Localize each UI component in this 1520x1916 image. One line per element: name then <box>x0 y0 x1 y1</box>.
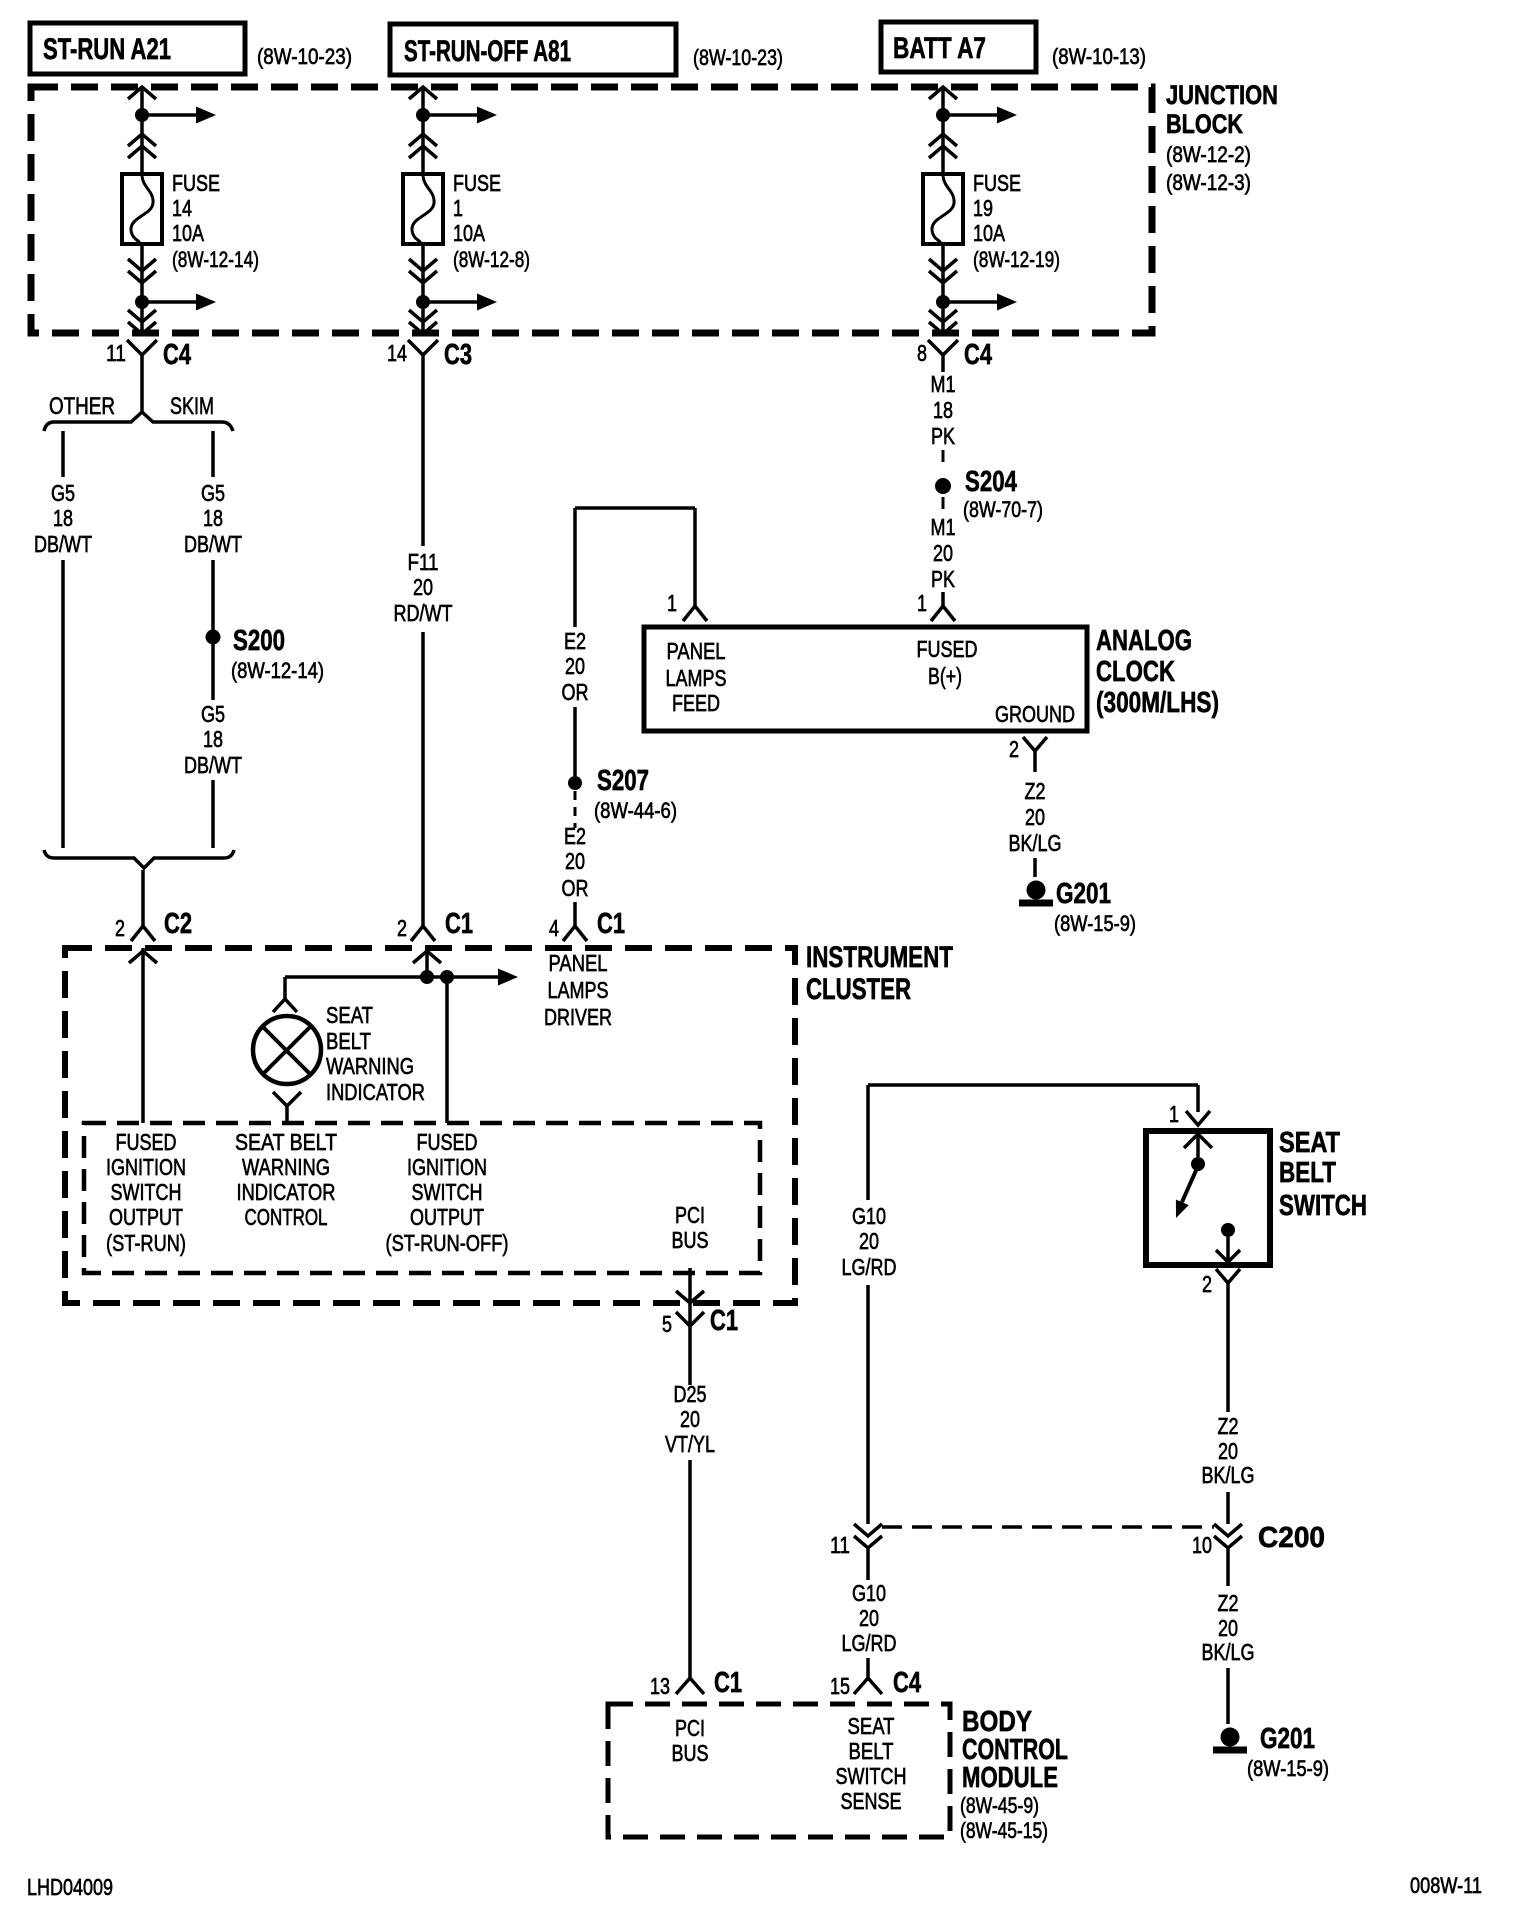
wire down to ST-RUN-OFF pin <box>445 977 449 1123</box>
clock pin label FUSED B(+) <box>917 636 978 689</box>
double chevron down at border column 1 <box>128 310 156 334</box>
reference (8W-10-23) for ST-RUN-OFF A81 <box>693 45 783 70</box>
svg-text:SEAT BELT: SEAT BELT <box>235 1129 337 1155</box>
label SKIM <box>170 393 214 420</box>
node junction dots panel lamps driver <box>420 970 454 984</box>
svg-text:Z2: Z2 <box>1218 1590 1239 1616</box>
svg-text:D25: D25 <box>674 1381 707 1407</box>
svg-text:Z2: Z2 <box>1025 778 1046 804</box>
connector pin 2 seat belt switch <box>1202 1269 1240 1300</box>
svg-text:FUSED: FUSED <box>417 1129 478 1155</box>
connector pin 2 clock ground <box>1009 736 1047 772</box>
svg-text:LAMPS: LAMPS <box>548 977 609 1003</box>
wire G10 20 LG/RD upper <box>842 1085 897 1524</box>
svg-text:(8W-12-2): (8W-12-2) <box>1166 142 1251 167</box>
svg-text:C4: C4 <box>964 339 992 371</box>
cluster pin label PCI BUS <box>672 1202 709 1253</box>
svg-text:11: 11 <box>106 340 126 366</box>
connector pin 1 fused B(+) <box>917 590 955 621</box>
connector pin 15 C4 body control module <box>830 1658 921 1699</box>
svg-text:2: 2 <box>397 915 407 941</box>
svg-text:18: 18 <box>203 726 223 752</box>
svg-text:WARNING: WARNING <box>242 1154 330 1180</box>
svg-text:PANEL: PANEL <box>549 950 608 976</box>
fuse label column 1 <box>172 170 259 272</box>
sheet number LHD04009 <box>27 1874 113 1900</box>
node and branch arrow lower column 2 <box>416 294 497 311</box>
wire panel lamps driver bus <box>285 969 518 986</box>
svg-text:PCI: PCI <box>675 1202 705 1228</box>
branch brace OTHER/SKIM <box>44 412 233 431</box>
svg-text:20: 20 <box>933 540 953 566</box>
svg-text:G5: G5 <box>201 480 225 506</box>
junction block dashed border <box>31 87 1152 333</box>
svg-text:OTHER: OTHER <box>49 393 115 420</box>
svg-text:1: 1 <box>1169 1101 1179 1127</box>
svg-text:10A: 10A <box>453 220 486 246</box>
svg-text:BUS: BUS <box>672 1740 709 1766</box>
svg-text:1: 1 <box>917 590 927 616</box>
double chevron down at border column 3 <box>929 310 957 334</box>
svg-text:20: 20 <box>680 1406 700 1432</box>
svg-text:20: 20 <box>1218 1438 1238 1464</box>
svg-text:LG/RD: LG/RD <box>842 1254 897 1280</box>
instrument cluster internal dashed box <box>84 1123 760 1273</box>
connector pin 2 C1 instrument cluster <box>397 908 473 941</box>
node and branch arrow upper column 2 <box>416 107 497 124</box>
junction block label <box>1166 80 1278 195</box>
svg-text:ST-RUN-OFF A81: ST-RUN-OFF A81 <box>404 35 571 68</box>
seat belt switch box <box>1146 1131 1270 1265</box>
connector pin 11 C4 below junction block <box>106 339 191 372</box>
reference (8W-10-23) for ST-RUN A21 <box>257 44 352 69</box>
seat belt switch contacts <box>1176 1134 1240 1265</box>
connector pin 14 C3 below junction block <box>387 339 472 372</box>
svg-text:DB/WT: DB/WT <box>34 531 92 557</box>
svg-text:C1: C1 <box>714 1667 742 1699</box>
svg-text:18: 18 <box>53 505 73 531</box>
merge brace to C2 <box>44 850 234 868</box>
svg-text:C4: C4 <box>893 1667 921 1699</box>
svg-text:5: 5 <box>662 1311 672 1337</box>
wire Z2 20 BK/LG clock ground <box>1009 778 1062 877</box>
svg-text:GROUND: GROUND <box>995 701 1075 727</box>
svg-text:INDICATOR: INDICATOR <box>326 1079 425 1105</box>
svg-text:G201: G201 <box>1056 878 1111 910</box>
svg-text:C3: C3 <box>444 339 472 371</box>
svg-text:(8W-15-9): (8W-15-9) <box>1054 911 1136 936</box>
cluster pin label FUSED IGNITION SWITCH OUTPUT (ST-RUN) <box>106 1129 186 1256</box>
svg-text:11: 11 <box>830 1532 850 1558</box>
svg-text:VT/YL: VT/YL <box>665 1431 715 1457</box>
svg-text:18: 18 <box>933 397 953 423</box>
double chevron down column 3 <box>929 259 957 283</box>
reference (8W-10-13) for BATT A7 <box>1052 44 1146 69</box>
svg-text:M1: M1 <box>931 514 956 540</box>
wire PCI BUS out of cluster <box>676 1268 704 1326</box>
wire brace to connector C2 <box>141 870 145 926</box>
wire feed into junction block column 3 <box>929 87 957 174</box>
wire M1 20 PK <box>931 497 956 592</box>
svg-text:SWITCH: SWITCH <box>836 1763 907 1789</box>
splice S200 <box>206 560 325 683</box>
svg-text:(8W-45-15): (8W-45-15) <box>960 1818 1048 1843</box>
svg-text:(ST-RUN): (ST-RUN) <box>106 1230 186 1256</box>
svg-text:FUSED: FUSED <box>116 1129 177 1155</box>
svg-text:OUTPUT: OUTPUT <box>410 1204 484 1230</box>
svg-text:SWITCH: SWITCH <box>412 1179 483 1205</box>
svg-text:OR: OR <box>562 875 589 901</box>
svg-text:B(+): B(+) <box>928 663 962 689</box>
sheet number 008W-11 <box>1410 1873 1482 1898</box>
node and branch arrow lower column 1 <box>135 294 216 311</box>
wire feed to seat belt switch pin 1 <box>1196 1085 1200 1112</box>
connector 10 C200 <box>1192 1522 1325 1558</box>
connector 11 C200 in-line <box>830 1524 882 1558</box>
wire into cluster fused ignition ST-RUN <box>129 948 157 1123</box>
svg-text:20: 20 <box>859 1228 879 1254</box>
analog clock label <box>1096 625 1219 719</box>
svg-text:C200: C200 <box>1258 1522 1325 1554</box>
svg-text:WARNING: WARNING <box>326 1053 414 1079</box>
wire G10 20 LG/RD lower <box>842 1548 897 1656</box>
svg-text:20: 20 <box>565 653 585 679</box>
svg-text:SENSE: SENSE <box>841 1788 902 1814</box>
node and branch arrow upper column 1 <box>135 107 216 124</box>
wire feed into junction block column 2 <box>409 87 437 174</box>
instrument cluster label <box>806 941 953 1006</box>
svg-text:(8W-15-9): (8W-15-9) <box>1247 1756 1329 1781</box>
double chevron up column 3 <box>929 134 957 158</box>
wire G5 18 DB/WT (SKIM branch upper) <box>184 431 242 557</box>
svg-text:CLOCK: CLOCK <box>1096 656 1175 688</box>
fuse label column 3 <box>973 170 1060 272</box>
wire F11 20 RD/WT <box>394 372 453 926</box>
svg-text:S200: S200 <box>233 625 285 657</box>
connector pin 2 C2 instrument cluster <box>115 908 192 941</box>
svg-text:C2: C2 <box>164 908 192 940</box>
cluster pin label SEAT BELT WARNING INDICATOR CONTROL <box>235 1129 337 1230</box>
svg-text:DB/WT: DB/WT <box>184 531 242 557</box>
svg-text:BUS: BUS <box>672 1227 709 1253</box>
wire M1 18 PK <box>931 371 956 465</box>
svg-text:(8W-10-13): (8W-10-13) <box>1052 44 1146 69</box>
svg-text:2: 2 <box>115 915 125 941</box>
svg-text:SEAT: SEAT <box>1279 1127 1340 1159</box>
lamp label SEAT BELT WARNING INDICATOR <box>326 1002 425 1105</box>
svg-text:1: 1 <box>667 590 677 616</box>
svg-text:OR: OR <box>562 679 589 705</box>
power feed box ST-RUN-OFF A81 <box>390 24 676 75</box>
svg-text:8: 8 <box>917 340 927 366</box>
svg-text:BATT A7: BATT A7 <box>893 32 986 65</box>
svg-text:S204: S204 <box>965 466 1017 498</box>
fuse 14 (10A) column 1 <box>122 174 162 244</box>
label OTHER <box>49 393 115 420</box>
wire fuse output column 3 <box>941 244 945 333</box>
svg-text:LG/RD: LG/RD <box>842 1630 897 1656</box>
power feed box ST-RUN A21 <box>30 23 245 74</box>
svg-text:BELT: BELT <box>1279 1157 1336 1189</box>
double chevron up column 2 <box>409 134 437 158</box>
clock pin label GROUND <box>995 701 1075 727</box>
svg-text:008W-11: 008W-11 <box>1410 1873 1482 1898</box>
svg-text:20: 20 <box>1218 1615 1238 1641</box>
svg-text:FUSED: FUSED <box>917 636 978 662</box>
svg-text:20: 20 <box>1025 804 1045 830</box>
connector pin 5 C1 <box>662 1305 738 1342</box>
svg-text:INDICATOR: INDICATOR <box>237 1179 336 1205</box>
label PANEL LAMPS DRIVER <box>544 950 612 1030</box>
svg-text:20: 20 <box>413 574 433 600</box>
svg-text:2: 2 <box>1202 1271 1212 1297</box>
svg-text:2: 2 <box>1009 736 1019 762</box>
svg-text:JUNCTION: JUNCTION <box>1166 80 1278 110</box>
instrument cluster dashed box <box>65 948 795 1303</box>
wire into cluster fused ignition ST-RUN-OFF <box>413 948 441 977</box>
svg-text:C4: C4 <box>163 339 191 371</box>
svg-text:13: 13 <box>650 1673 670 1699</box>
svg-text:SEAT: SEAT <box>326 1002 373 1028</box>
wire fuse output column 1 <box>140 244 144 333</box>
svg-text:G201: G201 <box>1260 1723 1315 1755</box>
svg-text:(8W-12-8): (8W-12-8) <box>453 247 530 272</box>
svg-text:LHD04009: LHD04009 <box>27 1874 113 1900</box>
svg-text:(8W-44-6): (8W-44-6) <box>594 798 677 823</box>
svg-text:(8W-12-14): (8W-12-14) <box>172 247 259 272</box>
svg-text:10: 10 <box>1192 1532 1212 1558</box>
svg-text:10A: 10A <box>973 220 1006 246</box>
wire feed into junction block column 1 <box>128 87 156 174</box>
wire C4 to OTHER/SKIM branch <box>140 372 144 412</box>
svg-text:(300M/LHS): (300M/LHS) <box>1096 687 1219 719</box>
svg-text:DB/WT: DB/WT <box>184 752 242 778</box>
analog clock box <box>644 627 1087 731</box>
node and branch arrow upper column 3 <box>936 107 1017 124</box>
svg-text:4: 4 <box>549 915 559 941</box>
svg-text:G5: G5 <box>51 480 75 506</box>
svg-text:CLUSTER: CLUSTER <box>806 973 911 1006</box>
wire to panel lamps feed pin <box>693 508 697 598</box>
svg-text:BELT: BELT <box>326 1028 371 1054</box>
connector pin 4 C1 instrument cluster <box>549 908 625 941</box>
svg-text:BK/LG: BK/LG <box>1202 1639 1255 1665</box>
wire D25 20 VT/YL <box>665 1342 715 1664</box>
seat belt warning indicator lamp <box>253 999 321 1123</box>
wire E2 feed from panel lamps feed <box>562 508 696 705</box>
svg-text:RD/WT: RD/WT <box>394 600 453 626</box>
svg-text:E2: E2 <box>564 628 586 654</box>
svg-text:(8W-70-7): (8W-70-7) <box>963 497 1043 522</box>
svg-text:ST-RUN A21: ST-RUN A21 <box>43 33 171 66</box>
wire G5 18 DB/WT (SKIM branch lower) <box>184 644 242 848</box>
svg-text:1: 1 <box>453 195 463 221</box>
svg-text:SWITCH: SWITCH <box>1279 1190 1367 1222</box>
wire Z2 20 BK/LG seat belt switch <box>1202 1300 1255 1524</box>
clock pin label PANEL LAMPS FEED <box>666 638 727 716</box>
svg-text:INSTRUMENT: INSTRUMENT <box>806 941 953 974</box>
svg-text:C1: C1 <box>710 1305 738 1337</box>
fuse label column 2 <box>453 170 530 272</box>
connector pin 1 panel lamps feed <box>667 590 707 621</box>
double chevron down at border column 2 <box>409 310 437 334</box>
double chevron down column 2 <box>409 259 437 283</box>
svg-text:G10: G10 <box>852 1580 886 1606</box>
cluster pin label FUSED IGNITION SWITCH OUTPUT (ST-RUN-OFF) <box>386 1129 509 1256</box>
connector pin 8 C4 below junction block <box>917 339 992 372</box>
svg-text:C1: C1 <box>597 908 625 940</box>
svg-text:20: 20 <box>565 848 585 874</box>
C200 dashed wire link <box>882 1525 1214 1529</box>
svg-text:G10: G10 <box>852 1203 886 1229</box>
svg-text:C1: C1 <box>445 908 473 940</box>
fuse 1 (10A) column 2 <box>403 174 443 244</box>
svg-text:10A: 10A <box>172 220 205 246</box>
svg-text:(8W-10-23): (8W-10-23) <box>693 45 783 70</box>
wire fuse output column 2 <box>421 244 425 333</box>
svg-text:DRIVER: DRIVER <box>544 1004 612 1030</box>
svg-text:ANALOG: ANALOG <box>1096 625 1192 657</box>
svg-text:S207: S207 <box>597 765 649 797</box>
svg-text:FUSE: FUSE <box>172 170 220 196</box>
svg-text:PANEL: PANEL <box>667 638 726 664</box>
power feed box BATT A7 <box>881 22 1036 72</box>
node and branch arrow lower column 3 <box>936 294 1017 311</box>
BCM pin label SEAT BELT SWITCH SENSE <box>836 1713 907 1814</box>
splice S204 <box>935 466 1043 522</box>
svg-text:FUSE: FUSE <box>453 170 501 196</box>
svg-text:F11: F11 <box>408 549 439 575</box>
double chevron down column 1 <box>128 259 156 283</box>
body control module label <box>960 1706 1068 1843</box>
svg-text:14: 14 <box>387 340 407 366</box>
svg-text:20: 20 <box>859 1605 879 1631</box>
svg-text:BELT: BELT <box>849 1738 894 1764</box>
ground G201 at body control module <box>1213 1723 1329 1781</box>
svg-text:SKIM: SKIM <box>170 393 214 420</box>
svg-text:BK/LG: BK/LG <box>1202 1462 1255 1488</box>
svg-text:15: 15 <box>830 1673 850 1699</box>
svg-text:18: 18 <box>203 505 223 531</box>
connector pin 1 seat belt switch <box>1169 1101 1210 1127</box>
svg-text:(8W-12-14): (8W-12-14) <box>231 658 324 683</box>
BCM pin label PCI BUS <box>672 1715 709 1766</box>
wire G10 top run to seat belt switch <box>868 1083 1198 1087</box>
svg-text:G5: G5 <box>201 701 225 727</box>
splice S207 <box>568 707 677 823</box>
ground G201 at clock <box>1019 878 1136 936</box>
svg-text:(ST-RUN-OFF): (ST-RUN-OFF) <box>386 1230 509 1256</box>
wire E2 20 OR lower <box>562 791 589 926</box>
wire to seat belt warning lamp <box>283 977 287 1000</box>
svg-text:(8W-10-23): (8W-10-23) <box>257 44 352 69</box>
svg-text:FEED: FEED <box>672 690 720 716</box>
svg-text:BK/LG: BK/LG <box>1009 830 1062 856</box>
svg-text:SWITCH: SWITCH <box>111 1179 182 1205</box>
svg-text:PCI: PCI <box>675 1715 705 1741</box>
svg-text:PK: PK <box>931 566 956 592</box>
svg-text:PK: PK <box>931 423 956 449</box>
svg-text:FUSE: FUSE <box>973 170 1021 196</box>
svg-text:(8W-12-19): (8W-12-19) <box>973 247 1060 272</box>
svg-text:SEAT: SEAT <box>848 1713 895 1739</box>
svg-text:CONTROL: CONTROL <box>245 1204 328 1230</box>
svg-text:IGNITION: IGNITION <box>106 1154 186 1180</box>
svg-text:(8W-45-9): (8W-45-9) <box>960 1793 1039 1818</box>
fuse 19 (10A) column 3 <box>923 174 963 244</box>
svg-text:OUTPUT: OUTPUT <box>109 1204 183 1230</box>
connector pin 13 C1 body control module <box>650 1664 742 1699</box>
body control module dashed box <box>608 1704 950 1837</box>
svg-text:Z2: Z2 <box>1218 1413 1239 1439</box>
svg-text:14: 14 <box>172 195 192 221</box>
svg-text:LAMPS: LAMPS <box>666 665 727 691</box>
svg-text:(8W-12-3): (8W-12-3) <box>1166 170 1251 195</box>
wire G5 18 DB/WT (OTHER branch) <box>34 431 92 848</box>
seat belt switch label <box>1279 1127 1367 1222</box>
wire Z2 20 BK/LG to ground <box>1202 1548 1255 1724</box>
svg-text:M1: M1 <box>931 371 956 397</box>
svg-text:19: 19 <box>973 195 993 221</box>
svg-text:BLOCK: BLOCK <box>1166 109 1243 139</box>
svg-text:MODULE: MODULE <box>962 1762 1058 1794</box>
double chevron up column 1 <box>128 134 156 158</box>
svg-text:IGNITION: IGNITION <box>407 1154 487 1180</box>
svg-text:E2: E2 <box>564 823 586 849</box>
